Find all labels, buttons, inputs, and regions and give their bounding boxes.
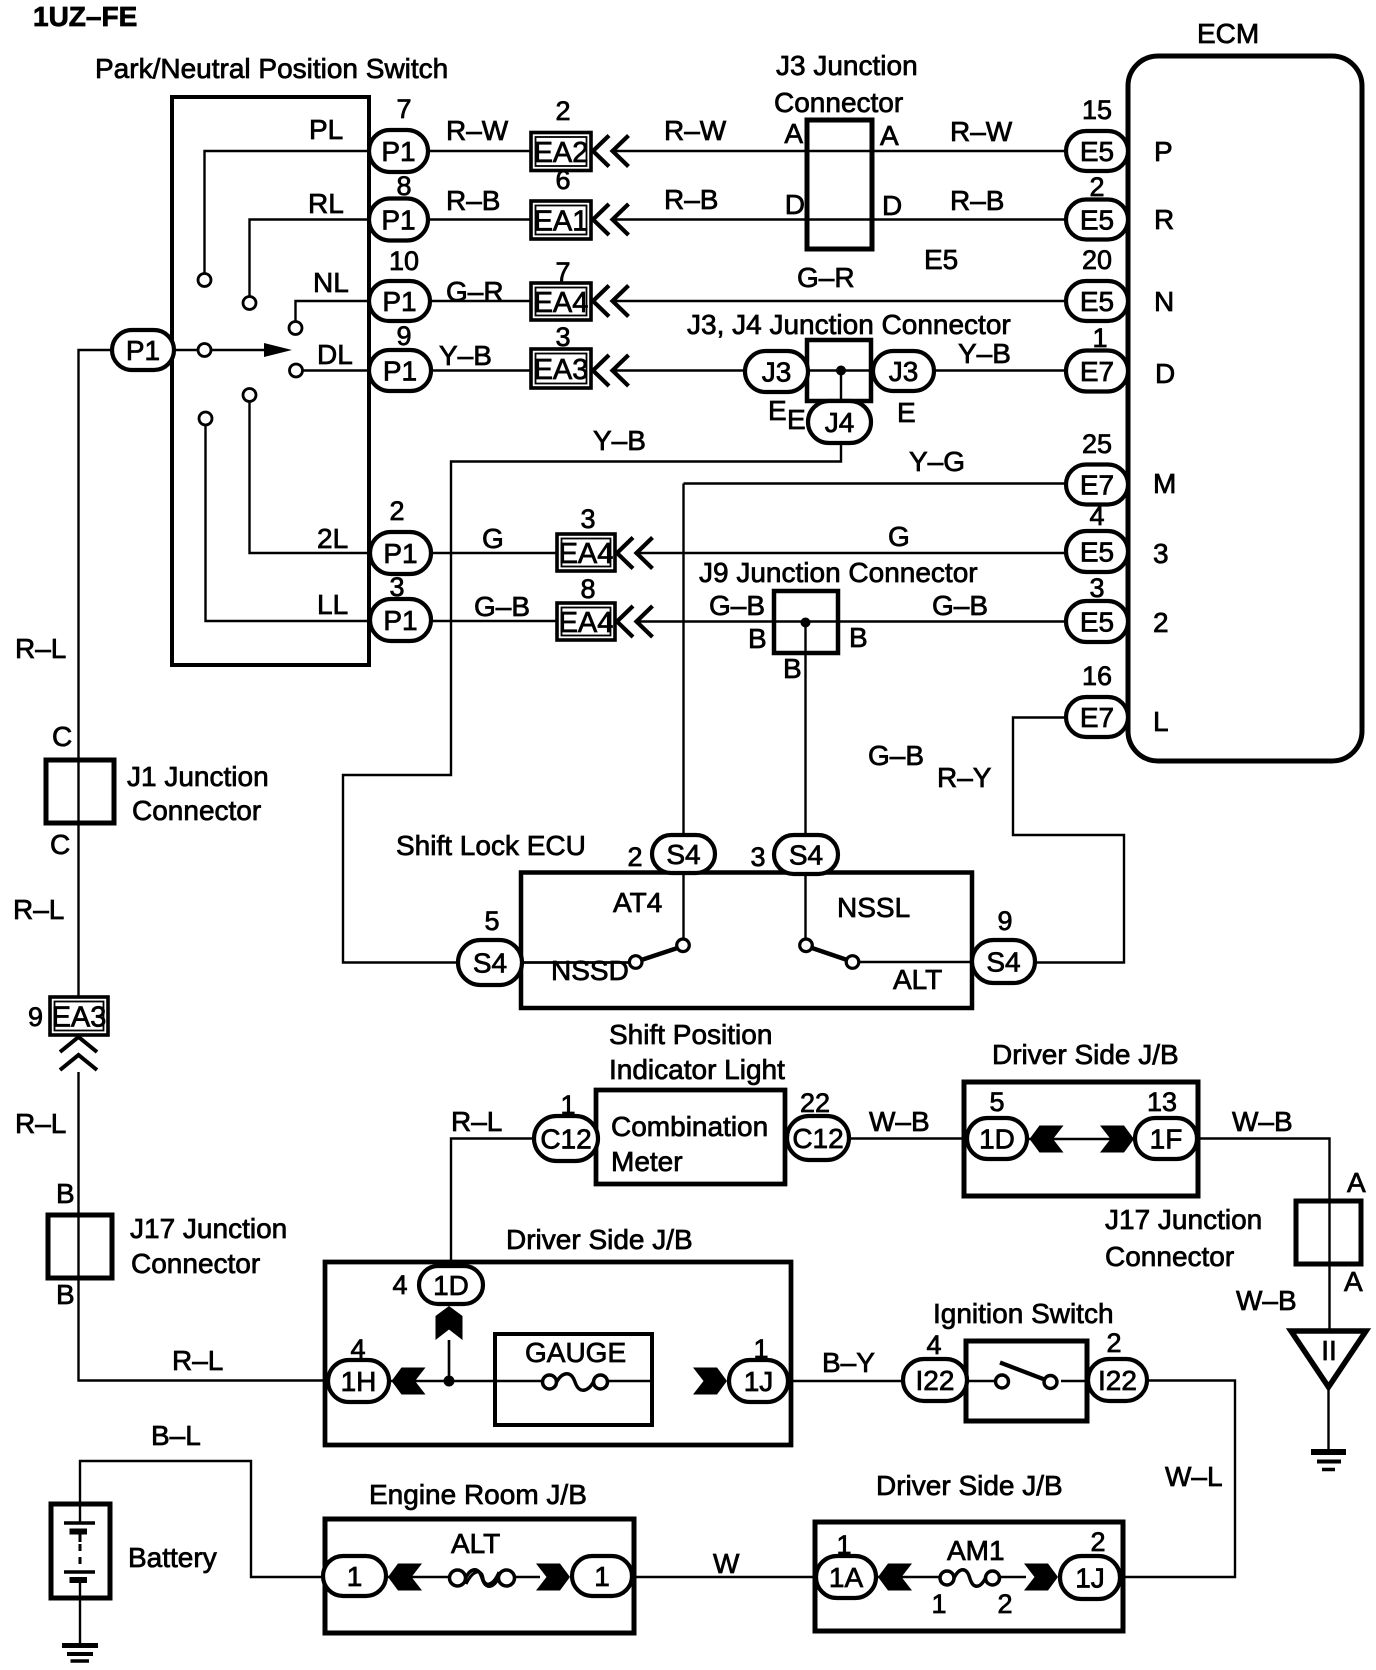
connector EA1 (531, 201, 591, 239)
svg-text:P1: P1 (383, 605, 417, 636)
background boxes layer (325, 1082, 1198, 1633)
wire W-L I22 to driver JB 1J (1120, 1381, 1235, 1578)
wire row D (Y-B) switch to EA3 (369, 369, 531, 371)
wire row D (Y-B) EA3 to J3 pill (611, 369, 745, 371)
chevrons EA4 G-B (617, 606, 653, 637)
svg-text:20: 20 (1082, 245, 1112, 275)
svg-text:6: 6 (555, 165, 570, 195)
wire contact P stem (205, 151, 370, 274)
contact circle R (243, 297, 256, 310)
svg-text:EA4: EA4 (534, 287, 589, 319)
wire R-L combination meter to 1D (451, 1139, 534, 1267)
svg-text:A: A (1347, 1167, 1366, 1198)
wire W-B 1F to J17 connector (1197, 1139, 1330, 1202)
svg-text:Shift Position: Shift Position (609, 1019, 772, 1050)
wire row D (Y-B) through J3/J4 junction (808, 369, 873, 371)
J17 junction connector box left (48, 1215, 112, 1278)
svg-text:S4: S4 (666, 839, 700, 870)
wire inside shift lock ECU pin9 (859, 961, 973, 963)
fuse GAUGE (543, 1374, 608, 1391)
wire row R (R-B) switch to EA1 (369, 218, 531, 220)
svg-text:Y–B: Y–B (958, 338, 1011, 369)
svg-text:D: D (1155, 358, 1175, 389)
wire inside ignition switch (967, 1380, 1088, 1382)
connector C12 right (787, 1116, 849, 1160)
svg-text:R–B: R–B (950, 185, 1004, 216)
svg-text:N: N (1154, 286, 1174, 317)
svg-text:RL: RL (308, 188, 344, 219)
svg-text:J17 Junction: J17 Junction (130, 1213, 287, 1244)
wire inside shift lock ECU pin5 (521, 961, 630, 963)
wire row N (G-R) switch to EA4 (369, 300, 531, 302)
connector P1 pin2 (2L) (370, 532, 431, 574)
svg-text:B: B (748, 623, 767, 654)
svg-text:E5: E5 (924, 244, 958, 275)
svg-text:B–Y: B–Y (822, 1347, 875, 1378)
svg-text:1UZ–FE: 1UZ–FE (33, 1, 137, 32)
connector E7 pin1 (D) (1066, 351, 1128, 392)
wire ground stem below triangle (1327, 1387, 1329, 1449)
chevrons EA4 G-R (593, 286, 629, 317)
contact circle common (198, 344, 211, 357)
svg-text:Park/Neutral Position Switch: Park/Neutral Position Switch (95, 53, 448, 84)
svg-text:J3: J3 (762, 356, 792, 387)
J9 junction connector box (774, 591, 838, 653)
connector P1 pin9 (DL) (369, 350, 431, 391)
svg-text:R–L: R–L (15, 633, 66, 664)
svg-text:GAUGE: GAUGE (525, 1337, 626, 1368)
svg-text:R–B: R–B (664, 184, 718, 215)
connector E5 pin2 (R) (1066, 200, 1128, 240)
J3 junction connector box (807, 120, 872, 249)
park/neutral position switch box (172, 97, 369, 665)
svg-text:E5: E5 (1080, 204, 1114, 235)
svg-text:G–B: G–B (932, 590, 988, 621)
svg-text:P1: P1 (383, 355, 417, 386)
svg-text:9: 9 (997, 906, 1012, 936)
svg-text:I22: I22 (1098, 1365, 1137, 1396)
connector EA4 (G) (557, 534, 615, 571)
ignition switch contacts (996, 1363, 1058, 1389)
svg-text:S4: S4 (986, 946, 1020, 977)
svg-text:A: A (784, 118, 803, 149)
svg-text:W–B: W–B (1236, 1285, 1297, 1316)
svg-text:C: C (50, 829, 70, 860)
junction dot J3/J4 (836, 366, 846, 376)
wire contact L stem (206, 425, 371, 621)
switch AT4/NSSD (629, 939, 689, 968)
connector EA4 (G-R) (531, 283, 591, 320)
svg-text:W–L: W–L (1165, 1461, 1223, 1492)
svg-text:EA2: EA2 (534, 137, 589, 169)
wire row P (R-W) switch to EA2 (369, 150, 531, 152)
driver side J/B top box (964, 1082, 1198, 1196)
svg-text:J4: J4 (825, 407, 855, 438)
svg-text:Ignition Switch: Ignition Switch (933, 1298, 1114, 1329)
svg-text:D: D (882, 190, 902, 221)
svg-text:R–B: R–B (446, 185, 500, 216)
svg-text:R–W: R–W (950, 116, 1013, 147)
wire contact 2 stem (250, 402, 371, 554)
wire contact N stem (296, 301, 370, 322)
svg-text:Meter: Meter (611, 1146, 683, 1177)
svg-text:G–B: G–B (474, 591, 530, 622)
chevrons EA4 G (617, 538, 653, 569)
connector S4 pin3 (774, 835, 838, 874)
svg-text:II: II (1321, 1335, 1337, 1366)
svg-text:9: 9 (396, 321, 411, 351)
connector E5 pin15 (P) (1066, 131, 1128, 171)
svg-text:NSSD: NSSD (551, 955, 629, 986)
wire inside driver JB bottom (876, 1576, 1026, 1578)
wire row P (R-W) J3 junction to ECM E5 (807, 150, 1066, 152)
svg-text:EA3: EA3 (52, 1001, 107, 1033)
wire row D (Y-B) J3 pill to ECM E7 (934, 369, 1066, 371)
svg-text:G–R: G–R (446, 276, 504, 307)
gauge fuse box (495, 1334, 652, 1425)
svg-text:B: B (849, 622, 868, 653)
svg-text:3: 3 (1153, 538, 1169, 569)
wire contact R stem (250, 220, 370, 297)
connector J4 (808, 401, 871, 443)
wire row P (R-W) EA2 to J3 junction (611, 150, 807, 152)
arrow left AM1 (878, 1564, 912, 1591)
svg-text:Combination: Combination (611, 1111, 768, 1142)
driver side J/B left box (325, 1262, 791, 1445)
wire W-B combination meter to driver JB (849, 1137, 967, 1139)
fuse ALT (450, 1570, 515, 1587)
svg-text:Connector: Connector (774, 87, 903, 118)
svg-text:A: A (880, 120, 899, 151)
svg-text:R–L: R–L (172, 1345, 223, 1376)
wire arrow to junction dot (448, 1340, 450, 1381)
svg-text:E: E (768, 395, 787, 426)
connector I22 left (pin4) (903, 1359, 967, 1401)
svg-text:Driver Side J/B: Driver Side J/B (876, 1470, 1063, 1501)
svg-text:ALT: ALT (893, 964, 942, 995)
connector P1 pin7 (PL) (369, 130, 428, 172)
engine room J/B box (325, 1519, 634, 1633)
wire inside gauge box (495, 1380, 652, 1382)
wire row R (R-B) J3 junction to ECM E5 (807, 218, 1066, 220)
ground symbol battery (62, 1646, 98, 1662)
connector EA2 (531, 133, 591, 171)
svg-text:1D: 1D (979, 1123, 1015, 1154)
svg-text:2: 2 (1106, 1328, 1121, 1358)
svg-text:R: R (1154, 204, 1174, 235)
J1 junction connector box (46, 760, 114, 823)
connector P1 pin3 (LL) (370, 599, 431, 641)
J3/J4 junction connector box (807, 340, 871, 401)
svg-text:Indicator Light: Indicator Light (609, 1054, 785, 1085)
svg-text:B: B (783, 653, 802, 684)
svg-text:L: L (1153, 706, 1169, 737)
svg-text:P1: P1 (381, 136, 415, 167)
connector EA4 (G-B) (557, 603, 615, 640)
wire row LL (G-B) switch to EA4 (370, 620, 557, 622)
svg-text:2: 2 (1153, 607, 1169, 638)
connector 1J bottom (pin2) (1060, 1556, 1120, 1599)
wire through J9 box (774, 620, 838, 622)
contact circle D (290, 364, 303, 377)
arrow right 1F (1100, 1126, 1134, 1153)
wire contact D stem (303, 369, 370, 371)
svg-text:NSSL: NSSL (837, 892, 910, 923)
connector 1 left (engine JB) (323, 1556, 386, 1596)
svg-text:D: D (785, 189, 805, 220)
svg-text:15: 15 (1082, 95, 1112, 125)
wire row LL (G-B) EA4 to J9 junction (636, 620, 774, 622)
svg-text:G: G (482, 523, 504, 554)
svg-text:22: 22 (800, 1088, 830, 1118)
switch NSSL/ALT (800, 939, 859, 968)
svg-text:8: 8 (580, 574, 595, 604)
svg-text:G–R: G–R (797, 262, 855, 293)
ground triangle II (1291, 1331, 1366, 1387)
svg-text:C: C (52, 721, 72, 752)
svg-text:E7: E7 (1080, 469, 1114, 500)
svg-text:AT4: AT4 (613, 887, 662, 918)
wire row N (G-R) EA4 to ECM E5 (611, 300, 1066, 302)
contact circle 2 (243, 389, 256, 402)
svg-text:J9 Junction Connector: J9 Junction Connector (699, 557, 978, 588)
svg-text:W–B: W–B (1232, 1106, 1293, 1137)
wire row 2L (G) switch to EA4 (370, 552, 557, 554)
svg-text:2: 2 (627, 842, 642, 872)
svg-text:R–L: R–L (15, 1108, 66, 1139)
svg-text:1H: 1H (341, 1366, 377, 1397)
chevrons EA1 (593, 204, 629, 235)
svg-text:J17 Junction: J17 Junction (1105, 1204, 1262, 1235)
svg-text:M: M (1153, 468, 1176, 499)
svg-text:E7: E7 (1080, 702, 1114, 733)
svg-text:3: 3 (750, 842, 765, 872)
svg-text:R–L: R–L (451, 1106, 502, 1137)
svg-text:C12: C12 (540, 1123, 591, 1154)
connector EA3 (left column) (50, 997, 108, 1035)
wire inside engine room JB (386, 1576, 540, 1578)
svg-text:R–Y: R–Y (937, 762, 992, 793)
svg-text:2: 2 (997, 1589, 1012, 1619)
connector 1 right (engine JB) (572, 1556, 632, 1596)
svg-text:25: 25 (1082, 429, 1112, 459)
J17 junction connector box right (1296, 1201, 1361, 1264)
svg-text:3: 3 (1089, 573, 1104, 603)
connector P1 pin8 (RL) (369, 199, 428, 241)
contact circle N (289, 322, 302, 335)
svg-text:Connector: Connector (132, 795, 261, 826)
svg-text:P1: P1 (381, 204, 415, 235)
svg-text:W–B: W–B (869, 1106, 930, 1137)
svg-text:J3 Junction: J3 Junction (776, 50, 918, 81)
svg-text:A: A (1344, 1266, 1363, 1297)
svg-text:5: 5 (989, 1087, 1004, 1117)
connector 1D (pin4) (419, 1266, 483, 1304)
svg-text:G: G (888, 521, 910, 552)
svg-text:4: 4 (926, 1330, 941, 1360)
ECM box (1128, 56, 1362, 761)
svg-text:AM1: AM1 (947, 1535, 1005, 1566)
arrow left 1D (1030, 1126, 1064, 1153)
shift lock ECU box (521, 873, 972, 1009)
wire through J3/J4 box (807, 369, 871, 371)
fuse AM1 (940, 1570, 1000, 1587)
svg-text:E: E (897, 397, 916, 428)
svg-text:3: 3 (580, 504, 595, 534)
wire R-L from P1 down left side (79, 350, 113, 997)
svg-text:E5: E5 (1080, 286, 1114, 317)
connector P1 pin10 (NL) (369, 281, 430, 321)
svg-text:P1: P1 (126, 335, 160, 366)
wire row R (R-B) EA1 to J3 junction (611, 218, 807, 220)
wire row 2L (G) EA4 to ECM E5 (636, 552, 1066, 554)
combination meter box (596, 1090, 785, 1184)
connector 1H (pin4) (328, 1360, 389, 1402)
driver side J/B bottom box (815, 1522, 1123, 1631)
svg-text:Battery: Battery (128, 1542, 217, 1573)
svg-text:E5: E5 (1080, 536, 1114, 567)
wire row LL (G-B) through J9 to ECM E5 (774, 620, 1066, 622)
svg-text:1J: 1J (1075, 1562, 1105, 1593)
svg-text:5: 5 (484, 906, 499, 936)
wire W engine room JB to driver JB (632, 1576, 816, 1578)
arrow up to 1D (436, 1306, 463, 1340)
svg-text:9: 9 (28, 1002, 43, 1032)
svg-text:J3, J4 Junction Connector: J3, J4 Junction Connector (687, 309, 1011, 340)
svg-text:EA4: EA4 (559, 538, 614, 570)
junction dot gauge (444, 1376, 455, 1387)
svg-text:Y–B: Y–B (439, 340, 492, 371)
svg-text:2L: 2L (317, 523, 348, 554)
chevrons EA3 (593, 355, 629, 386)
connector 1F (pin13) (1135, 1118, 1197, 1159)
svg-text:4: 4 (392, 1270, 407, 1300)
svg-text:1: 1 (594, 1561, 610, 1592)
svg-text:LL: LL (317, 589, 348, 620)
battery cell symbol (64, 1523, 95, 1580)
svg-text:ALT: ALT (451, 1528, 500, 1559)
connector S4 pin2 (652, 835, 715, 873)
connector J3 right (873, 351, 934, 391)
wire R-L below EA3 to 1H (79, 1072, 329, 1381)
svg-text:Shift Lock ECU: Shift Lock ECU (396, 830, 586, 861)
wire 1H through gauge to 1J (389, 1380, 495, 1382)
svg-text:B: B (56, 1178, 75, 1209)
svg-text:J3: J3 (889, 356, 919, 387)
connector E7 pin25 (M) (1066, 465, 1128, 505)
connector C12 left (534, 1116, 598, 1161)
svg-text:G–B: G–B (709, 590, 765, 621)
svg-text:1: 1 (931, 1589, 946, 1619)
connector J3 left (745, 351, 808, 392)
svg-text:EA4: EA4 (559, 607, 614, 639)
svg-text:NL: NL (313, 267, 349, 298)
svg-text:EA1: EA1 (534, 205, 589, 237)
svg-text:13: 13 (1147, 1087, 1177, 1117)
connector I22 right (pin2) (1088, 1359, 1147, 1401)
svg-text:Connector: Connector (131, 1248, 260, 1279)
svg-text:ECM: ECM (1197, 18, 1259, 49)
junction dot J9 (801, 618, 811, 628)
svg-text:Engine Room J/B: Engine Room J/B (369, 1479, 587, 1510)
svg-text:2: 2 (555, 96, 570, 126)
connector 1A (pin1) (816, 1556, 876, 1598)
svg-text:10: 10 (389, 246, 419, 276)
wire battery to ground (79, 1583, 81, 1643)
arrow right 1J (693, 1368, 727, 1395)
connector E5 pin4 (3) (1066, 531, 1128, 572)
svg-text:C12: C12 (792, 1123, 843, 1154)
svg-text:DL: DL (317, 339, 353, 370)
connector E5 pin3 (2) (1066, 601, 1128, 642)
connector E7 pin16 (L) (1066, 697, 1128, 737)
svg-text:J1 Junction: J1 Junction (127, 761, 269, 792)
svg-text:16: 16 (1082, 661, 1112, 691)
arrow left ALT (388, 1564, 422, 1591)
arrow right ALT (536, 1564, 570, 1591)
svg-text:E5: E5 (1080, 136, 1114, 167)
contact circle L (199, 412, 212, 425)
svg-text:R–W: R–W (664, 115, 727, 146)
svg-text:EA3: EA3 (534, 354, 589, 386)
svg-text:Y–B: Y–B (593, 425, 646, 456)
wire Y-G vertical down to S4 pin2 (682, 484, 684, 940)
svg-text:7: 7 (396, 94, 411, 124)
svg-text:Connector: Connector (1105, 1241, 1234, 1272)
wire Y-G row M to ECM E7 (684, 482, 1067, 484)
svg-text:Y–G: Y–G (909, 446, 965, 477)
svg-text:B: B (56, 1279, 75, 1310)
svg-text:P1: P1 (382, 286, 416, 317)
selector arrow (212, 343, 293, 357)
svg-text:P: P (1154, 136, 1173, 167)
battery box (51, 1504, 110, 1598)
connector 1J (pin1) (729, 1360, 788, 1402)
svg-text:W: W (713, 1548, 740, 1579)
svg-text:2: 2 (389, 496, 404, 526)
svg-text:1A: 1A (829, 1562, 864, 1593)
chevrons EA3 up (60, 1037, 97, 1070)
wire R-Y from ECM E7 L to S4 pin9 (1013, 718, 1124, 963)
svg-text:1D: 1D (433, 1270, 469, 1301)
arrow right AM1 (1024, 1564, 1058, 1591)
svg-text:E7: E7 (1080, 356, 1114, 387)
connector 1D (pin5) (967, 1118, 1027, 1159)
connector P1 common (left) (112, 330, 174, 370)
wire Y-B from J4 down-left to S4 pin5 (343, 443, 841, 963)
arrow left 1H (392, 1368, 426, 1395)
svg-text:PL: PL (309, 114, 343, 145)
svg-text:E5: E5 (1080, 606, 1114, 637)
svg-text:1J: 1J (744, 1366, 774, 1397)
connector S4 pin5 (458, 940, 522, 985)
svg-text:4: 4 (1089, 501, 1104, 531)
contact circle P (198, 274, 211, 287)
svg-text:1F: 1F (1150, 1123, 1183, 1154)
connector S4 pin9 (972, 940, 1035, 983)
svg-text:R–W: R–W (446, 115, 509, 146)
connector EA3 (Y-B) (531, 349, 591, 388)
wire P1 common to contact arm (174, 349, 198, 351)
svg-text:2: 2 (1090, 1527, 1105, 1557)
connector E5 pin20 (N) (1066, 281, 1128, 321)
svg-text:S4: S4 (473, 947, 507, 978)
svg-text:P1: P1 (383, 538, 417, 569)
wire inside driver JB 1D-1F (1027, 1138, 1135, 1141)
svg-text:1: 1 (347, 1561, 363, 1592)
wire J4 stub from dot (840, 371, 842, 402)
svg-text:G–B: G–B (868, 740, 924, 771)
